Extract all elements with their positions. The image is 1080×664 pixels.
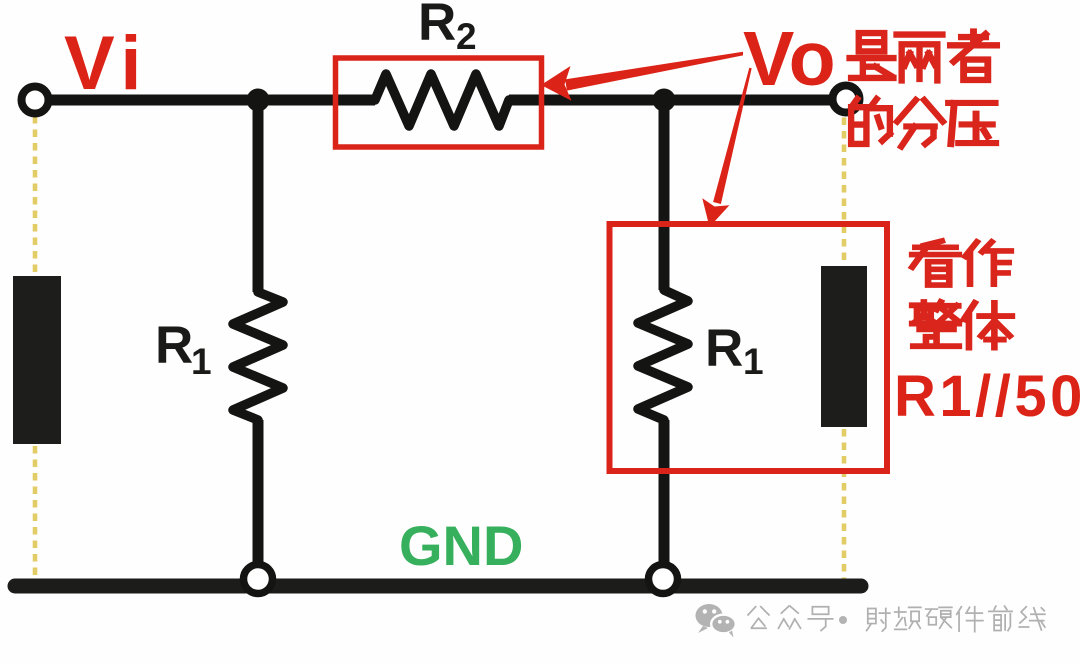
resistor R1 left zigzag (233, 292, 283, 420)
char 众 (778, 606, 800, 629)
port 2 dashed line (right, lower segment) (842, 429, 847, 584)
char 线 (1019, 607, 1045, 630)
char 看 (912, 241, 959, 285)
char 者 (950, 32, 996, 80)
port 1 dashed line (left, upper segment) (35, 104, 844, 584)
char 作 (965, 242, 1011, 284)
svg-text:R1//50: R1//50 (894, 364, 1080, 429)
port 2 termination block (right 50 ohm) (821, 266, 867, 427)
highlight box around R2 (336, 58, 542, 147)
annotation text: zheng ti (as a whole) (912, 302, 1012, 348)
char 前 (989, 606, 1012, 630)
svg-text:Vi: Vi (64, 21, 148, 106)
char 的 (851, 99, 890, 144)
svg-text:R: R (705, 319, 743, 378)
svg-text:1: 1 (743, 341, 764, 382)
annotation text: shi liang zhe (is the divider of the two) line 1 (850, 32, 997, 81)
annotation text: kan zuo (treat as) (912, 241, 1011, 285)
separator dot (839, 616, 847, 624)
ground junction left (open circle) (244, 565, 273, 594)
annotation text line 2: de fen ya (851, 99, 996, 147)
svg-text:R: R (418, 0, 456, 52)
label R1 (right) (705, 319, 764, 382)
wire: input node Vi to R2 left lead (44, 95, 375, 106)
label R2 (418, 0, 477, 57)
input terminal Vi (open circle) (22, 87, 49, 114)
junction node B (Vo / R1) (653, 89, 676, 112)
svg-text:2: 2 (456, 16, 477, 57)
char 号 (808, 607, 832, 631)
watermark wechat icon (696, 604, 736, 638)
junction node A (Vi / R1 / R2) (247, 89, 270, 112)
annotation arrow to R2 box (541, 52, 743, 101)
char 公 (748, 607, 769, 628)
highlight box around right R1 and port 2 load (610, 224, 888, 471)
char 整 (912, 302, 959, 346)
wire: right R1 bottom to ground (659, 420, 670, 582)
port 2 dashed line (right, upper segment) (842, 104, 847, 264)
port 1 dashed line (left, lower segment) (33, 446, 38, 584)
resistor R1 right zigzag (638, 290, 688, 420)
watermark text: gongzhonghao (official account) (748, 606, 1045, 632)
port 1 termination block (left 50 ohm) (13, 276, 61, 444)
svg-text:R: R (155, 316, 193, 375)
wire: node B down to right R1 top (659, 100, 670, 290)
char 分 (897, 100, 943, 147)
resistor R2 zigzag (375, 74, 509, 126)
ground bus (15, 579, 861, 594)
wire: node A down to left R1 top (253, 100, 264, 292)
char 频 (895, 607, 921, 629)
char 体 (964, 303, 1012, 348)
svg-text:1: 1 (191, 341, 212, 382)
ground junction right (open circle) (649, 565, 678, 594)
svg-text:GND: GND (399, 514, 523, 577)
char 是 (850, 33, 894, 78)
char 硬 (926, 607, 952, 628)
annotation arrow to R1 box (702, 68, 751, 227)
label R1 (left) (155, 316, 212, 382)
wire: R2 right lead to output terminal (509, 95, 834, 106)
char 两 (897, 35, 943, 81)
char 压 (949, 103, 996, 144)
svg-text:Vo: Vo (743, 16, 836, 102)
char 件 (957, 607, 983, 632)
wire: left R1 bottom to ground (253, 420, 264, 582)
output terminal Vo (open circle) (833, 86, 860, 113)
char 射 (867, 608, 890, 631)
